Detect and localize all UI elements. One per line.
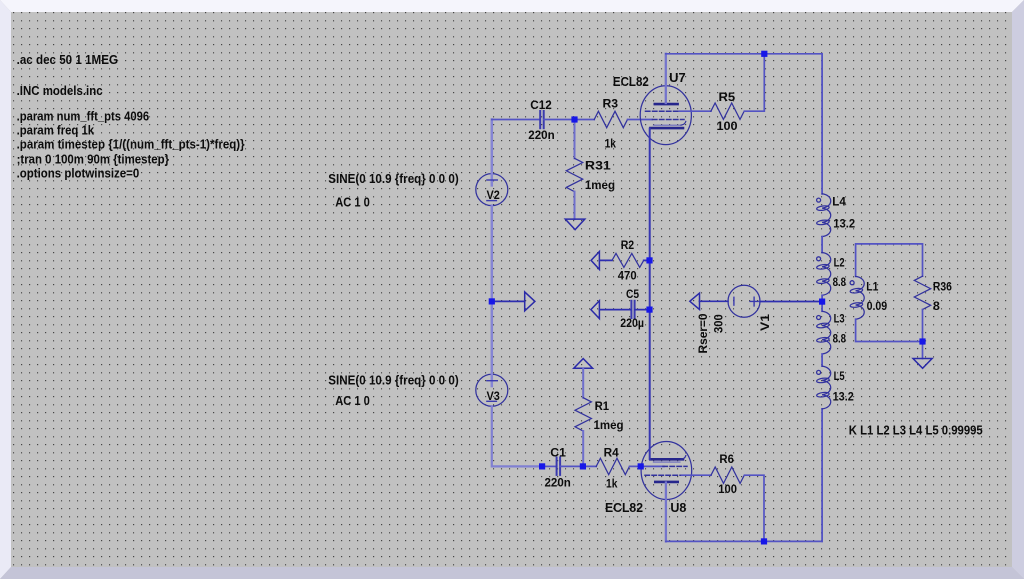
L1/R36 loop bottom wire [856, 310, 923, 359]
right rail below L5 [821, 409, 823, 542]
node junction bottom rail / R6 [761, 538, 767, 544]
node junction C1/R1/R4 [580, 463, 586, 469]
node junction C12/R3/R31 [571, 116, 577, 122]
wire R4 to U8 grid [630, 465, 664, 467]
resistor R3 [594, 111, 627, 127]
svg-text:13.2: 13.2 [833, 389, 854, 403]
node junction R36 bottom [919, 338, 925, 344]
resistor R5 [711, 103, 744, 119]
SPICE directive text block [17, 52, 245, 180]
bottom rail wire [666, 540, 822, 542]
wire R3 to U7 grid [628, 119, 652, 121]
wire stub to right arrow [495, 300, 525, 302]
plate lead U8 [665, 483, 667, 542]
svg-text:220µ: 220µ [620, 316, 644, 330]
wire to C1 [544, 465, 556, 467]
svg-text:.param num_fft_pts 4096: .param num_fft_pts 4096 [17, 108, 150, 123]
wire U8 g2 to R6 [682, 474, 711, 476]
node junction R4 / U8 grid [638, 463, 644, 469]
svg-text:1meg: 1meg [594, 418, 624, 432]
svg-text:8.8: 8.8 [833, 275, 847, 289]
svg-text:AC 1 0: AC 1 0 [335, 394, 370, 408]
svg-text:R3: R3 [603, 97, 619, 111]
wire V2 to V3 [491, 206, 494, 375]
svg-text:L4: L4 [832, 195, 846, 209]
svg-text:L1: L1 [866, 280, 878, 294]
left arrow V1 [690, 293, 700, 309]
svg-text:.param freq 1k: .param freq 1k [17, 122, 95, 137]
plate bar U7 [655, 103, 678, 106]
plate lead U7 [665, 54, 667, 103]
svg-text:ECL82: ECL82 [613, 75, 649, 89]
svg-text:.options plotwinsize=0: .options plotwinsize=0 [17, 166, 140, 181]
svg-text:C12: C12 [530, 98, 552, 112]
grid g2 dashes U8 [645, 474, 682, 476]
svg-text:V3: V3 [487, 389, 500, 403]
wire R31 bottom lead [574, 192, 576, 220]
svg-text:Rser=0: Rser=0 [696, 313, 710, 353]
svg-text:R5: R5 [719, 90, 736, 104]
tube U7 ECL82 [640, 54, 691, 145]
left arrow C5 [591, 301, 600, 319]
wire R31 top lead [574, 120, 576, 159]
ground below R36 [913, 359, 932, 369]
node junction R2 / cathode rail [646, 257, 652, 263]
voltage source V2 [476, 174, 508, 206]
resistor R4 [596, 458, 629, 474]
resistor R2 [612, 253, 644, 267]
resistor R1 [575, 398, 591, 431]
svg-text:1k: 1k [605, 137, 617, 151]
svg-text:300: 300 [712, 314, 726, 333]
svg-text:U8: U8 [670, 501, 686, 515]
svg-text:100: 100 [717, 119, 738, 133]
node junction mid V2V3 [489, 298, 495, 304]
svg-text:V1: V1 [758, 314, 772, 331]
wire R5 right lead up to top rail [745, 54, 765, 111]
left arrow R2 [591, 252, 599, 270]
L1/R36 loop top wire [856, 244, 923, 277]
wire L4-L2 [821, 237, 823, 253]
up arrow above R1 [574, 359, 593, 369]
svg-text:V2: V2 [487, 188, 500, 202]
plate bar U8 [655, 481, 677, 484]
svg-text:C1: C1 [550, 445, 566, 459]
svg-text:R31: R31 [585, 159, 611, 173]
wire C5 leads [599, 309, 649, 311]
svg-text:.INC models.inc: .INC models.inc [17, 83, 103, 98]
inductor L3 [816, 311, 830, 354]
inductor L2 [816, 253, 830, 296]
wire L3-L5 [821, 354, 823, 366]
tube U8 ECL82 [641, 442, 692, 542]
grid g2 dashes U7 [646, 110, 680, 112]
top rail wire [666, 53, 822, 55]
svg-text:100: 100 [718, 482, 737, 496]
voltage source V1 [728, 285, 760, 317]
svg-text:L3: L3 [834, 312, 845, 326]
wire U7 g2 to R5 [680, 110, 711, 112]
cathode rail U7 to U8 [649, 129, 651, 459]
svg-text:ECL82: ECL82 [605, 501, 643, 515]
svg-text:470: 470 [618, 268, 637, 282]
resistor R36 [914, 276, 930, 309]
wire arrow to R1 [582, 368, 584, 398]
svg-text:C5: C5 [626, 287, 639, 301]
capacitor C12 [540, 111, 544, 128]
svg-text:R6: R6 [719, 452, 734, 466]
capacitor C1 [557, 458, 561, 475]
wire R2 leads [599, 259, 649, 261]
svg-text:;tran 0 100m 90m {timestep}: ;tran 0 100m 90m {timestep} [17, 152, 170, 167]
svg-text:13.2: 13.2 [833, 217, 855, 231]
wire V3 down and bottom-left run [492, 406, 542, 466]
svg-text:.param timestep {1/((num_fft_p: .param timestep {1/((num_fft_pts-1)*freq… [17, 137, 245, 152]
svg-text:0.09: 0.09 [867, 299, 888, 313]
svg-text:U7: U7 [669, 71, 686, 85]
node junction C1 left [539, 463, 545, 469]
svg-text:SINE(0 10.9 {freq} 0 0 0): SINE(0 10.9 {freq} 0 0 0) [328, 373, 458, 387]
wire top-left horizontal to C12 [492, 119, 540, 121]
svg-text:R1: R1 [595, 399, 610, 413]
svg-text:.ac dec 50 1 1MEG: .ac dec 50 1 1MEG [17, 52, 118, 67]
ground below R31 [565, 219, 585, 230]
inductor L5 [816, 366, 830, 409]
cathode U7 [650, 127, 683, 130]
voltage source V3 [476, 374, 508, 406]
node junction V1 / right rail [819, 299, 825, 305]
svg-text:K L1 L2 L3 L4 L5 0.99995: K L1 L2 L3 L4 L5 0.99995 [849, 424, 983, 438]
inductor L1 [850, 276, 864, 319]
output arrow right [525, 292, 535, 311]
svg-text:R36: R36 [933, 280, 952, 294]
wire C12 to R3 [544, 119, 594, 121]
capacitor C5 [631, 301, 634, 318]
svg-text:L5: L5 [834, 369, 845, 383]
svg-text:R4: R4 [604, 445, 619, 459]
inductor L4 [816, 194, 830, 237]
grid g1 dashes U8 [663, 465, 687, 467]
wire V1 right lead [760, 301, 822, 303]
wire V1 left lead [700, 300, 729, 302]
wire R6 right lead down to bottom rail [745, 475, 764, 541]
wire R1 bottom lead [582, 431, 584, 466]
cathode U8 [650, 458, 683, 461]
svg-text:L2: L2 [834, 256, 845, 270]
resistor R31 [566, 158, 582, 191]
wire V2 top vertical [491, 120, 494, 174]
svg-text:8.8: 8.8 [833, 332, 847, 346]
svg-text:220n: 220n [528, 128, 554, 142]
node junction top rail / R5 [761, 51, 767, 57]
node junction C5 / cathode rail [646, 307, 652, 313]
svg-text:220n: 220n [545, 476, 571, 490]
right rail down to L4 [821, 54, 823, 194]
resistor R6 [711, 467, 744, 483]
wire L2-L3 with junction [821, 295, 823, 311]
svg-text:SINE(0 10.9 {freq} 0 0 0): SINE(0 10.9 {freq} 0 0 0) [328, 172, 458, 186]
grid g1 dashes U7 [653, 119, 685, 121]
svg-text:AC 1 0: AC 1 0 [335, 196, 370, 210]
svg-text:8: 8 [933, 299, 940, 313]
svg-text:R2: R2 [621, 238, 635, 252]
svg-text:1k: 1k [606, 476, 618, 490]
svg-text:1meg: 1meg [585, 178, 615, 192]
wire C1 to R1/R4 junction [560, 465, 596, 467]
